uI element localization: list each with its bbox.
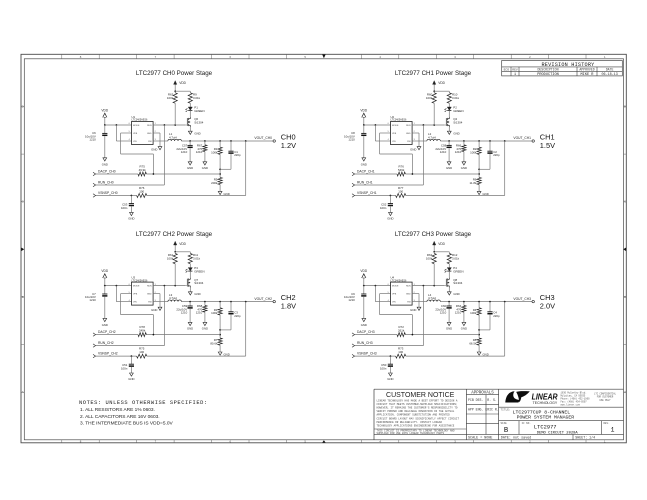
resistor R76 549k bbox=[397, 172, 405, 176]
wire RUN drop to input row bbox=[163, 286, 165, 346]
svg-text:GND: GND bbox=[187, 166, 193, 170]
svg-text:VOUT_CH1: VOUT_CH1 bbox=[513, 136, 531, 140]
svg-text:VDD: VDD bbox=[360, 269, 367, 273]
wire VDD to input rail bbox=[104, 117, 106, 125]
svg-text:DACP_CH0: DACP_CH0 bbox=[98, 170, 116, 174]
inductor L4 4.7uH bbox=[427, 300, 441, 302]
svg-text:49.9k: 49.9k bbox=[139, 168, 147, 172]
sheet inner border bbox=[24, 59, 623, 440]
svg-text:GND: GND bbox=[187, 326, 193, 330]
Linear Technology logo bbox=[505, 391, 558, 405]
ground under C58 bbox=[447, 162, 451, 165]
resistor R60 100k pullup bbox=[433, 91, 435, 93]
svg-text:GND: GND bbox=[461, 326, 467, 330]
wire VFB feedback loop bbox=[121, 132, 132, 134]
resistor R77 100 bbox=[396, 194, 406, 198]
svg-text:LTC2977 CH2 Power Stage: LTC2977 CH2 Power Stage bbox=[136, 231, 213, 238]
svg-text:DACP_CH2: DACP_CH2 bbox=[98, 330, 116, 334]
svg-text:1210: 1210 bbox=[455, 311, 462, 315]
ground under Q4 bbox=[448, 127, 450, 131]
svg-text:VDD: VDD bbox=[360, 109, 367, 113]
svg-text:USE ONLY: USE ONLY bbox=[599, 399, 611, 402]
inductor L1 4.7uH bbox=[168, 139, 182, 141]
ground under C52 bbox=[389, 212, 393, 215]
svg-text:VIN: VIN bbox=[392, 302, 396, 304]
wire RUN rail bbox=[153, 124, 185, 126]
svg-text:GND: GND bbox=[361, 323, 367, 327]
svg-text:VIN: VIN bbox=[392, 141, 396, 143]
svg-text:GREEN: GREEN bbox=[453, 109, 463, 113]
svg-text:1210: 1210 bbox=[89, 138, 96, 142]
svg-text:www.linear.com: www.linear.com bbox=[561, 404, 581, 407]
svg-text:VFB: VFB bbox=[133, 294, 138, 296]
svg-text:DEMO CIRCUIT 2029A: DEMO CIRCUIT 2029A bbox=[537, 432, 579, 436]
svg-text:100: 100 bbox=[398, 189, 403, 193]
node RUN_CH1 input bbox=[352, 183, 355, 186]
sheet center marker left bbox=[21, 248, 24, 252]
wire VFB feedback loop bbox=[380, 132, 391, 134]
transistor Q7 Si1304 bbox=[189, 271, 191, 277]
svg-text:GND: GND bbox=[202, 166, 208, 170]
svg-text:VDD: VDD bbox=[179, 81, 186, 85]
svg-text:GND: GND bbox=[151, 308, 157, 312]
capacitor C53 100n bbox=[130, 196, 132, 204]
svg-text:100k: 100k bbox=[470, 311, 477, 315]
wire output rail CH3 bbox=[440, 301, 532, 303]
svg-text:RUN: RUN bbox=[147, 125, 152, 127]
capacitor C7 input 10u bbox=[104, 286, 106, 294]
svg-text:VDD: VDD bbox=[101, 269, 108, 273]
svg-text:1210: 1210 bbox=[348, 298, 355, 302]
svg-text:SUPPLIED FOR USE WITH LINEAR T: SUPPLIED FOR USE WITH LINEAR TECHNOLOGY … bbox=[377, 432, 445, 435]
svg-text:GND: GND bbox=[446, 166, 452, 170]
svg-text:SCALE = NONE: SCALE = NONE bbox=[468, 436, 492, 440]
wire output rail CH1 bbox=[440, 140, 532, 142]
svg-text:1. ALL RESISTORS ARE 1% 0603.: 1. ALL RESISTORS ARE 1% 0603. bbox=[80, 407, 155, 413]
svg-text:LTC2977 CH1 Power Stage: LTC2977 CH1 Power Stage bbox=[395, 70, 472, 77]
svg-text:LTC3405AES6: LTC3405AES6 bbox=[132, 279, 148, 282]
svg-text:A: A bbox=[22, 390, 24, 394]
ground IC GND pin bbox=[153, 132, 160, 134]
ground under R68 bbox=[203, 322, 207, 325]
svg-text:MODE: MODE bbox=[392, 125, 399, 127]
ground under C7 bbox=[103, 318, 107, 321]
node VSNSP_CH3 input bbox=[352, 354, 355, 357]
ground under C50 bbox=[389, 373, 393, 376]
capacitor C60 22u output bbox=[448, 302, 450, 306]
capacitor C59 22u output bbox=[189, 302, 191, 306]
svg-text:VSNSP_CH0: VSNSP_CH0 bbox=[98, 191, 118, 195]
wire RUN rail bbox=[412, 285, 444, 287]
svg-text:MODE: MODE bbox=[392, 286, 399, 288]
svg-text:DESCRIPTION: DESCRIPTION bbox=[537, 68, 558, 72]
svg-text:C: C bbox=[22, 200, 24, 204]
svg-text:DATE: not saved: DATE: not saved bbox=[501, 435, 532, 440]
svg-text:100k: 100k bbox=[167, 256, 174, 260]
resistor R62 100k pullup bbox=[433, 252, 435, 254]
wire VSNSP to output bbox=[406, 195, 505, 197]
resistor R61 100k pullup bbox=[174, 252, 176, 254]
svg-text:CUSTOMER NOTICE: CUSTOMER NOTICE bbox=[386, 392, 455, 399]
svg-text:220p: 220p bbox=[234, 153, 241, 157]
capacitor C2 220p bbox=[489, 141, 491, 151]
svg-text:06-18-13: 06-18-13 bbox=[601, 73, 617, 77]
svg-text:MIKE R: MIKE R bbox=[581, 73, 595, 77]
svg-text:GND: GND bbox=[387, 377, 393, 381]
svg-text:GREEN: GREEN bbox=[453, 269, 463, 273]
svg-text:VFB: VFB bbox=[392, 133, 397, 135]
svg-text:GND: GND bbox=[147, 133, 152, 135]
svg-text:C: C bbox=[624, 200, 626, 204]
svg-text:RUN: RUN bbox=[406, 286, 411, 288]
svg-text:VERIFY PROPER AND RELIABLE OPE: VERIFY PROPER AND RELIABLE OPERATION IN … bbox=[377, 410, 455, 413]
capacitor C50 100n bbox=[389, 356, 391, 364]
svg-text:LTC2977: LTC2977 bbox=[534, 424, 557, 430]
node VIN rail CH0 bbox=[105, 124, 132, 126]
svg-text:3.01k: 3.01k bbox=[193, 256, 201, 260]
node RUN_CH3 input bbox=[352, 344, 355, 347]
node VSNSP_CH0 input bbox=[93, 194, 96, 197]
svg-text:2.0V: 2.0V bbox=[540, 301, 555, 310]
capacitor C3 220p bbox=[230, 302, 232, 312]
svg-text:CIRCUIT THAT MEETS CUSTOMER-SU: CIRCUIT THAT MEETS CUSTOMER-SUPPLIED SPE… bbox=[377, 403, 458, 406]
svg-text:ECO: ECO bbox=[504, 69, 510, 72]
svg-text:DATE: DATE bbox=[606, 68, 614, 72]
capacitor C51 100n bbox=[130, 356, 132, 364]
svg-text:100k: 100k bbox=[426, 96, 433, 100]
resistor R75 100 bbox=[137, 354, 147, 358]
svg-text:LTC2977 CH0 Power Stage: LTC2977 CH0 Power Stage bbox=[136, 70, 213, 77]
svg-text:REV: REV bbox=[512, 69, 518, 72]
ground under C6 bbox=[103, 158, 107, 161]
svg-text:LTC2977 CH3 Power Stage: LTC2977 CH3 Power Stage bbox=[395, 231, 472, 238]
svg-text:3. THE INTERMEDIATE BUS IS VDD: 3. THE INTERMEDIATE BUS IS VDD=5.0V bbox=[80, 420, 174, 426]
svg-text:80.6k: 80.6k bbox=[210, 341, 218, 345]
ground under C57 bbox=[188, 162, 192, 165]
svg-text:1210: 1210 bbox=[440, 150, 447, 154]
svg-text:220p: 220p bbox=[493, 314, 500, 318]
svg-text:B: B bbox=[22, 295, 24, 299]
size / number / rev row bbox=[499, 421, 624, 436]
svg-text:100: 100 bbox=[139, 350, 144, 354]
svg-text:GND: GND bbox=[194, 292, 200, 296]
svg-text:POWER SYSTEM MANAGER: POWER SYSTEM MANAGER bbox=[517, 415, 575, 421]
svg-text:4.7uH: 4.7uH bbox=[169, 296, 177, 300]
svg-text:GND: GND bbox=[453, 292, 459, 296]
resistor R12 3.01k bbox=[448, 252, 450, 254]
svg-text:VSNSP_CH1: VSNSP_CH1 bbox=[357, 191, 377, 195]
resistor R72 261k bbox=[397, 333, 405, 337]
wire RUN rail bbox=[412, 124, 444, 126]
svg-text:D: D bbox=[624, 104, 626, 108]
svg-text:APP ENG.: APP ENG. bbox=[468, 408, 483, 412]
svg-text:1210: 1210 bbox=[455, 150, 462, 154]
resistor R76 100 bbox=[137, 194, 147, 198]
svg-text:TECHNOLOGY: TECHNOLOGY bbox=[533, 401, 558, 405]
svg-text:RUN_CH2: RUN_CH2 bbox=[98, 341, 114, 345]
svg-text:A: A bbox=[624, 390, 626, 394]
svg-text:ERIC R.: ERIC R. bbox=[485, 408, 498, 412]
svg-text:GND: GND bbox=[410, 308, 416, 312]
svg-text:Si1304: Si1304 bbox=[194, 120, 203, 124]
svg-text:Si1304: Si1304 bbox=[453, 120, 462, 124]
svg-text:Si1304: Si1304 bbox=[453, 281, 462, 285]
wire DACP to feedback node bbox=[405, 334, 479, 336]
wire RUN rail bbox=[153, 285, 185, 287]
ground under R66 bbox=[462, 162, 466, 165]
svg-text:220p: 220p bbox=[493, 153, 500, 157]
logo confidential note bbox=[594, 392, 617, 401]
svg-text:GND: GND bbox=[128, 377, 134, 381]
svg-text:D: D bbox=[22, 104, 24, 108]
svg-text:PCB DES.: PCB DES. bbox=[468, 398, 483, 402]
svg-text:1.5V: 1.5V bbox=[540, 141, 555, 150]
inductor L3 4.7uH bbox=[168, 300, 182, 302]
date cell bbox=[501, 435, 532, 440]
svg-text:3.01k: 3.01k bbox=[193, 96, 201, 100]
svg-text:GND: GND bbox=[446, 326, 452, 330]
svg-text:2. ALL CAPACITORS ARE 16V 0603: 2. ALL CAPACITORS ARE 16V 0603. bbox=[80, 414, 160, 420]
resistor R63 100k pullup bbox=[174, 91, 176, 93]
svg-text:R. S.: R. S. bbox=[487, 398, 497, 402]
resistor R2 100k feedback bbox=[478, 141, 480, 147]
resistor R73 100 bbox=[396, 354, 406, 358]
svg-text:1210: 1210 bbox=[181, 311, 188, 315]
ground under R7 bbox=[218, 352, 222, 355]
svg-text:GREEN: GREEN bbox=[194, 269, 204, 273]
resistor R9 3.01k bbox=[189, 91, 191, 93]
capacitor C4 220p bbox=[489, 302, 491, 312]
svg-text:DACP_CH1: DACP_CH1 bbox=[357, 170, 375, 174]
wire RUN drop to input row bbox=[422, 286, 424, 346]
resistor R75 49.9k bbox=[138, 172, 146, 176]
node DACP_CH1 input bbox=[352, 172, 355, 175]
svg-text:Si1304: Si1304 bbox=[194, 281, 203, 285]
svg-text:GND: GND bbox=[102, 163, 108, 167]
capacitor C8 input 10u bbox=[363, 125, 365, 133]
op-amp regulator U2 LTC3405A bbox=[391, 122, 413, 145]
svg-text:GREEN: GREEN bbox=[194, 109, 204, 113]
svg-text:VFB: VFB bbox=[133, 133, 138, 135]
resistor R6 11.8k feedback bottom bbox=[477, 177, 481, 184]
inductor L2 4.7uH bbox=[427, 139, 441, 141]
svg-text:SHEET: 1/4: SHEET: 1/4 bbox=[575, 435, 595, 439]
svg-text:261k: 261k bbox=[398, 328, 405, 332]
svg-text:PRODUCTION: PRODUCTION bbox=[537, 73, 559, 77]
approvals table bbox=[466, 392, 498, 435]
svg-text:IC NO.: IC NO. bbox=[522, 422, 531, 425]
ground under C60 bbox=[447, 322, 451, 325]
ground under R64 bbox=[462, 322, 466, 325]
ground under R6 bbox=[477, 191, 481, 194]
wire RUN drop to input row bbox=[422, 125, 424, 185]
customer notice body bbox=[377, 400, 460, 428]
svg-text:VFB: VFB bbox=[392, 294, 397, 296]
ground under Q7 bbox=[189, 288, 191, 292]
svg-text:CIRCUIT BOARD LAYOUT MAY SIGNI: CIRCUIT BOARD LAYOUT MAY SIGNIFICANTLY A… bbox=[377, 417, 460, 420]
svg-text:APPROVALS: APPROVALS bbox=[471, 392, 494, 396]
svg-text:GND: GND bbox=[102, 323, 108, 327]
svg-text:DACP_CH3: DACP_CH3 bbox=[357, 330, 375, 334]
capacitor C58 22u output bbox=[448, 141, 450, 145]
svg-text:VOUT_CH0: VOUT_CH0 bbox=[254, 136, 272, 140]
svg-text:VOUT_CH3: VOUT_CH3 bbox=[513, 297, 531, 301]
wire DACP to feedback node bbox=[146, 334, 220, 336]
svg-text:200k: 200k bbox=[211, 181, 218, 185]
svg-text:100: 100 bbox=[398, 350, 403, 354]
svg-text:100n: 100n bbox=[121, 206, 128, 210]
wire VSNSP to output bbox=[406, 355, 505, 357]
svg-text:GND: GND bbox=[151, 147, 157, 151]
svg-text:GND: GND bbox=[406, 294, 411, 296]
wire VSNSP to output bbox=[147, 355, 246, 357]
svg-text:VDD: VDD bbox=[438, 242, 445, 246]
svg-text:RUN_CH3: RUN_CH3 bbox=[357, 341, 373, 345]
svg-text:1210: 1210 bbox=[196, 311, 203, 315]
svg-text:APPLICATION. COMPONENT SUBSTIT: APPLICATION. COMPONENT SUBSTITUTION AND … bbox=[377, 414, 451, 417]
ground IC GND pin bbox=[412, 132, 419, 134]
svg-text:GND: GND bbox=[406, 133, 411, 135]
capacitor C57 22u output bbox=[189, 141, 191, 145]
resistor R11 3.01k bbox=[189, 252, 191, 254]
title block outline bbox=[374, 389, 624, 440]
node VSNSP_CH2 input bbox=[93, 354, 96, 357]
svg-text:TITLE:: TITLE: bbox=[501, 408, 511, 411]
wire VDD to input rail bbox=[363, 278, 365, 286]
svg-text:11.8k: 11.8k bbox=[470, 181, 477, 185]
wire SW to inductor bbox=[153, 140, 168, 142]
svg-text:4.7uH: 4.7uH bbox=[428, 135, 436, 139]
resistor R78 249k bbox=[138, 333, 146, 337]
capacitor C1 220p bbox=[230, 141, 232, 151]
resistor R7 80.6k feedback bottom bbox=[218, 338, 222, 345]
svg-text:GND: GND bbox=[202, 326, 208, 330]
svg-text:RUN_CH1: RUN_CH1 bbox=[357, 181, 373, 185]
svg-text:1210: 1210 bbox=[89, 298, 96, 302]
node DACP_CH2 input bbox=[93, 333, 96, 336]
transistor Q6 Si1304 bbox=[189, 111, 191, 117]
svg-text:MODE: MODE bbox=[133, 286, 140, 288]
revision history table bbox=[502, 61, 623, 78]
svg-text:LTC3405AES6: LTC3405AES6 bbox=[132, 119, 148, 122]
wire RUN drop to input row bbox=[163, 125, 165, 185]
ground under C59 bbox=[188, 322, 192, 325]
svg-text:VSNSP_CH2: VSNSP_CH2 bbox=[98, 352, 118, 356]
ground under C51 bbox=[130, 373, 134, 376]
svg-text:3.01k: 3.01k bbox=[452, 256, 460, 260]
svg-text:100n: 100n bbox=[380, 206, 387, 210]
ground under Q6 bbox=[189, 127, 191, 131]
resistor R68 470 bbox=[204, 302, 206, 306]
node DACP_CH3 input bbox=[352, 333, 355, 336]
ground IC GND pin bbox=[412, 293, 419, 295]
node VIN rail CH1 bbox=[364, 124, 391, 126]
svg-text:HOWEVER, IT REMAINS THE CUSTOM: HOWEVER, IT REMAINS THE CUSTOMER'S RESPO… bbox=[377, 406, 458, 410]
svg-text:1.8V: 1.8V bbox=[281, 301, 296, 310]
op-amp regulator U3 LTC3405A bbox=[132, 282, 154, 305]
wire VFB feedback loop bbox=[121, 293, 132, 295]
node VSNSP_CH1 input bbox=[352, 194, 355, 197]
node DACP_CH0 input bbox=[93, 172, 96, 175]
capacitor C52 100n bbox=[389, 196, 391, 204]
wire VDD to input rail bbox=[363, 117, 365, 125]
svg-text:GND: GND bbox=[410, 147, 416, 151]
svg-text:249k: 249k bbox=[139, 328, 146, 332]
svg-text:100: 100 bbox=[139, 189, 144, 193]
resistor R67 470 bbox=[204, 141, 206, 145]
wire VIN pin riser bbox=[374, 286, 376, 302]
svg-text:1210: 1210 bbox=[181, 150, 188, 154]
svg-text:549k: 549k bbox=[398, 168, 405, 172]
svg-text:100n: 100n bbox=[380, 366, 387, 370]
transistor Q4 Si1304 bbox=[448, 111, 450, 117]
ground under R67 bbox=[203, 162, 207, 165]
svg-text:3.01k: 3.01k bbox=[452, 96, 460, 100]
wire output rail CH2 bbox=[181, 301, 273, 303]
svg-text:100k: 100k bbox=[211, 311, 218, 315]
ground under C53 bbox=[130, 212, 134, 215]
LED P1 GREEN bbox=[188, 107, 192, 110]
wire DACP to feedback node bbox=[405, 173, 479, 175]
svg-text:MODE: MODE bbox=[133, 125, 140, 127]
resistor R8 66.5k feedback bottom bbox=[477, 338, 481, 345]
resistor R10 3.01k bbox=[448, 91, 450, 93]
wire SW to inductor bbox=[412, 301, 427, 303]
svg-text:TECHNOLOGY APPLICATIONS ENGINE: TECHNOLOGY APPLICATIONS ENGINEERING FOR … bbox=[377, 424, 455, 427]
svg-text:SIZE: SIZE bbox=[501, 422, 508, 425]
svg-text:100n: 100n bbox=[121, 366, 128, 370]
svg-text:1.2V: 1.2V bbox=[281, 141, 296, 150]
resistor R3 100k feedback bbox=[219, 302, 221, 308]
svg-text:VIN: VIN bbox=[133, 302, 137, 304]
sheet cell bbox=[573, 434, 595, 439]
LED P4 GREEN bbox=[447, 268, 451, 271]
sheet center marker bottom bbox=[322, 440, 325, 442]
sheet center marker right bbox=[623, 248, 626, 252]
wire VFB feedback loop bbox=[380, 293, 391, 295]
svg-text:GND: GND bbox=[387, 216, 393, 220]
transistor Q8 Si1304 bbox=[448, 271, 450, 277]
resistor R5 200k feedback bottom bbox=[218, 177, 222, 184]
svg-text:LTC3405AES6: LTC3405AES6 bbox=[391, 119, 407, 122]
svg-text:VDD: VDD bbox=[438, 81, 445, 85]
svg-text:4.7uH: 4.7uH bbox=[169, 135, 177, 139]
capacitor C9 input 10u bbox=[363, 286, 365, 294]
node RUN_CH0 input bbox=[93, 183, 96, 186]
svg-text:REV.: REV. bbox=[604, 422, 610, 425]
svg-text:LTC3405AES6: LTC3405AES6 bbox=[391, 279, 407, 282]
svg-text:RUN: RUN bbox=[406, 125, 411, 127]
svg-text:VOUT_CH2: VOUT_CH2 bbox=[254, 297, 272, 301]
svg-text:66.5k: 66.5k bbox=[469, 341, 477, 345]
wire VDD to input rail bbox=[104, 278, 106, 286]
svg-text:220p: 220p bbox=[234, 314, 241, 318]
wire VSNSP to output bbox=[147, 195, 246, 197]
svg-text:B: B bbox=[624, 295, 626, 299]
title row bbox=[499, 407, 624, 421]
svg-text:1210: 1210 bbox=[196, 150, 203, 154]
svg-text:100k: 100k bbox=[426, 256, 433, 260]
svg-text:RUN: RUN bbox=[147, 286, 152, 288]
capacitor C6 input 10u bbox=[104, 125, 106, 133]
logo address bbox=[561, 392, 591, 407]
wire VIN pin riser bbox=[115, 286, 117, 302]
sheet center marker top bbox=[322, 55, 325, 59]
ground under C8 bbox=[362, 158, 366, 161]
wire VIN pin riser bbox=[115, 125, 117, 141]
svg-text:1210: 1210 bbox=[348, 138, 355, 142]
border zone tick marks bbox=[21, 54, 626, 443]
